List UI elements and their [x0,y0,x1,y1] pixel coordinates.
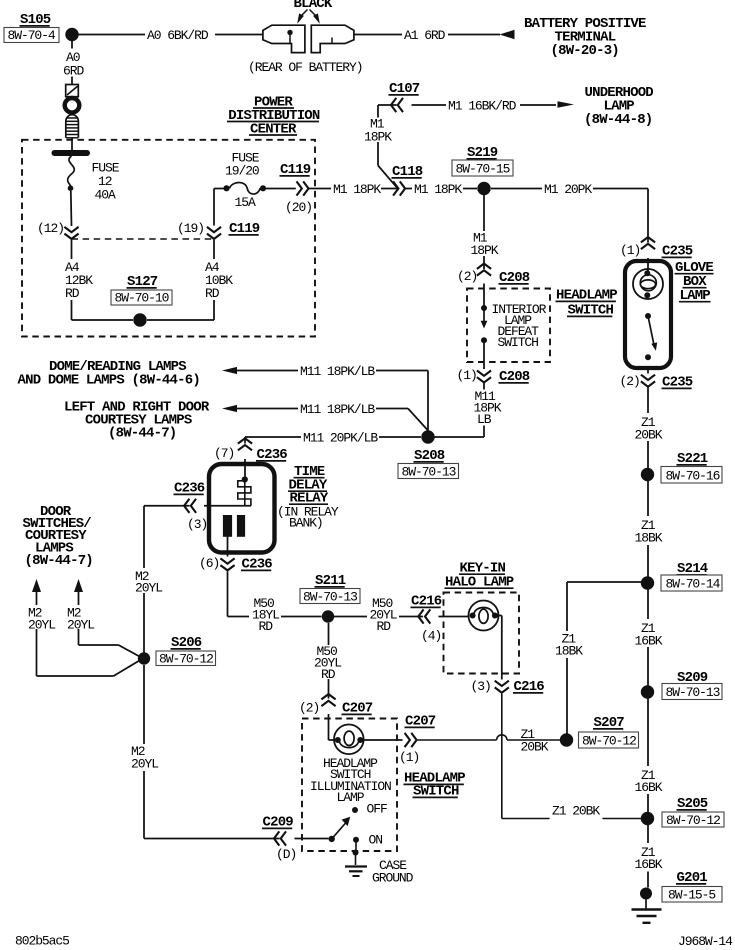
connector C208 pin 1 chevron [477,371,491,383]
splice S207 [560,733,573,746]
label M2 20YL (right) [67,606,94,633]
wire M1 18PK to S219 [406,188,477,190]
splice label S208 [414,448,445,464]
wire A0 6BK/RD to battery connector [79,34,264,36]
arrow to dome/reading lamps [222,367,237,374]
wire M2 to C209 [144,838,280,840]
wire illumination lamp to C207 pin1 [364,739,403,741]
svg-text:A0 6BK/RD: A0 6BK/RD [147,28,209,43]
connector label C208 (1) [499,369,530,385]
reference box 8W-70-16 [661,467,722,484]
wire A0 6RD down from S105 [71,41,73,84]
ground splice G201 [640,888,652,900]
label J968W-14 [678,934,733,949]
svg-text:20YL: 20YL [28,618,55,633]
svg-text:802b5ac5: 802b5ac5 [15,934,69,949]
label A0 [66,50,80,65]
wire into defeat switch [483,284,485,306]
ground label G201 [676,870,707,886]
wire M1 20PK down to C235 [647,189,649,243]
label FUSE 12 40A [92,161,120,203]
svg-text:J968W-14: J968W-14 [678,934,733,949]
splice S221 [641,468,654,481]
label Z1 16BK (S209-S205) [635,768,663,795]
label M11 18PK LB [474,389,502,427]
label M11 18PK/LB (dome) [300,364,375,379]
wire M1 16BK/RD [412,104,557,106]
svg-text:(12): (12) [37,221,64,236]
splice label S205 [677,796,708,812]
svg-text:M1 18PK: M1 18PK [414,182,462,197]
key-in halo lamp bulb [469,601,499,631]
splice S105 [65,28,78,41]
connector label C207 (2) [342,701,373,717]
svg-text:8W-70-16: 8W-70-16 [666,469,720,484]
svg-text:M11 20PK/LB: M11 20PK/LB [303,430,378,445]
wire defeat switch to C208 pin1 [483,343,485,369]
wire Z1 16BK S214-S209 [647,590,649,686]
label (IN RELAY BANK) [277,505,339,531]
svg-text:RD: RD [321,667,336,682]
wire A1 6RD [354,34,500,36]
svg-text:A1 6RD: A1 6RD [404,28,446,43]
wire M50 20YL RD right [334,616,423,618]
svg-text:M11 18PK/LB: M11 18PK/LB [300,364,375,379]
svg-text:20YL: 20YL [135,581,162,596]
svg-text:(6): (6) [199,556,219,571]
glove box lamp housing [625,261,671,368]
connector C119 pin 20 chevron [297,181,309,195]
label HEADLAMP SWITCH (bottom) [404,771,466,787]
label Z1 20BK (to S205) [552,804,600,819]
glove box lamp switch [645,313,657,360]
label (2) C208 [457,269,477,284]
wire into PDC [71,138,73,150]
splice S209 [641,685,654,698]
svg-text:(4): (4) [421,629,441,644]
svg-text:ON: ON [369,833,383,848]
connector label C209 [262,815,293,831]
label (20) [285,200,312,215]
wire A4 10BK RD [147,240,214,320]
svg-text:8W-70-12: 8W-70-12 [666,813,720,828]
svg-text:AND DOME LAMPS (8W-44-6): AND DOME LAMPS (8W-44-6) [18,373,200,389]
arrow to courtesy lamps [222,405,237,412]
svg-text:(2): (2) [620,374,640,389]
relay pin7 internal wire [244,459,246,477]
svg-text:40A: 40A [95,188,116,203]
connector C118 chevron [393,181,405,195]
wire fuse12 to C119 pin 12 [70,191,73,226]
label 6RD [63,64,84,79]
fuse 19/20 element [223,183,266,195]
connector label C118 [392,164,423,180]
label FUSE 19/20 [225,151,260,179]
interior lamp defeat switch [481,305,488,343]
connector C236 pin 6 chevron [220,558,234,570]
connector label C216 (3) [513,679,544,695]
splice label S127 [127,274,158,290]
label M2 20YL (upper) [135,569,162,596]
label (12) [37,221,64,236]
svg-text:18PK: 18PK [471,243,499,258]
bus bar [52,150,91,156]
label M2 20YL (left) [28,606,55,633]
label (3) C216 keyin [471,679,491,694]
wire M11 20PK/LB [245,436,421,438]
label (7) C236 [214,446,234,461]
svg-text:(3): (3) [471,679,491,694]
svg-text:15A: 15A [235,195,256,210]
wire M1 18PK below S219 [483,195,485,269]
reference box 8W-70-10 [111,290,172,306]
reference box 8W-70-12 (S205) [662,812,724,828]
label Z1 16BK (S205-G201) [635,845,663,872]
svg-text:8W-15-5: 8W-15-5 [668,888,715,903]
label A4 10BK RD [205,260,233,301]
connector C216 pin 3 chevron [495,681,509,693]
wire M1 18PK from PDC [309,188,398,190]
svg-text:M1 16BK/RD: M1 16BK/RD [448,99,517,114]
svg-text:16BK: 16BK [635,857,663,872]
reference box 8W-70-13 (S208) [398,464,459,480]
svg-text:20YL: 20YL [131,757,158,772]
wire M11 18PK/LB (dome) [237,371,428,432]
label M2 20YL (lower) [131,744,158,772]
splice label S206 [171,635,202,651]
connector label C207 (1) [405,714,436,730]
wire S214 to S207 [567,582,642,735]
connector label C216 (4) [411,594,442,610]
svg-text:SWITCH: SWITCH [498,335,539,350]
fuse 12 element (squiggle) [68,156,75,191]
label A0 6BK/RD [147,28,209,43]
svg-text:(20): (20) [285,200,312,215]
label DOOR SWITCHES/COURTESY LAMPS (8W-44-7) [23,504,93,569]
splice label S221 [677,451,708,467]
splice S206 [138,652,150,664]
time delay relay housing [209,464,275,553]
svg-text:(2): (2) [457,269,477,284]
headlamp switch illumination lamp bulb [334,725,364,755]
connector label C107 [389,81,420,97]
label BLACK (cut off at top) [294,0,333,12]
svg-text:19/20: 19/20 [225,164,259,179]
svg-text:18BK: 18BK [555,644,583,659]
wire glove box lamp to C235 pin2 [647,368,649,374]
splice S214 [641,576,654,589]
svg-text:LB: LB [477,412,492,427]
wire M1 18PK up to C107 [378,105,398,188]
wire A4 12BK RD [72,240,134,320]
connector C119 pin 19 chevron [207,227,221,239]
relay pin6 internal [227,537,229,557]
wire relay pin 3 [144,505,251,507]
svg-text:Z1 20BK: Z1 20BK [552,804,600,819]
svg-text:(19): (19) [177,221,204,236]
label (2) C207 [299,701,319,716]
case ground connection [353,843,359,866]
svg-text:(REAR OF BATTERY): (REAR OF BATTERY) [248,60,362,75]
label HEADLAMP SWITCH (bottom) line2 [413,784,460,800]
label (3) C236 [187,517,207,532]
wire M1 20PK [491,188,648,190]
fusible link symbol [65,85,80,138]
splice S219 [477,182,490,195]
svg-text:BANK): BANK) [289,516,323,531]
splice label S105 [20,12,51,28]
reference box 8W-70-12 (S207) [579,732,639,749]
wire M50 20YL RD down [328,623,330,699]
splice label S209 [677,670,708,686]
svg-text:8W-70-15: 8W-70-15 [456,162,510,177]
reference box 8W-70-4 [4,28,59,44]
svg-text:(7): (7) [214,446,234,461]
label HEADLAMP SWITCH line2 [567,303,614,319]
connector C119 pin 12 chevron [64,227,78,239]
svg-text:(2): (2) [299,701,319,716]
connector label C236 (6) [241,557,272,573]
connector C236 pin 3 chevron [184,499,196,513]
svg-text:8W-70-13: 8W-70-13 [303,590,357,605]
label Z1 20BK (glove box) [635,415,663,443]
svg-text:6RD: 6RD [63,64,84,79]
leader line BLACK right [310,10,316,16]
connector C236 pin 7 chevron [238,438,252,450]
label M50 20YL RD (down) [314,644,341,682]
reference box 8W-70-13 (S209) [662,684,722,701]
connector C207 pin 2 chevron [321,694,335,706]
connector label C235 (2) [662,375,693,391]
wire M2 20YL (right door) [79,590,140,657]
label DOME/READING LAMPS AND DOME LAMPS (8W-44-6) [18,359,200,389]
wire M11 20PK/LB to relay pin7 [244,437,246,444]
connector label C119 (20) [280,162,311,178]
label M50 20YL RD (right) [370,596,397,634]
wire halo lamp to C216 pin3 [497,616,502,680]
dashed link C119 (12)-(19) [72,238,215,240]
svg-text:8W-70-14: 8W-70-14 [666,577,721,592]
connector C107 chevron [391,98,403,112]
connector C235 pin 2 chevron [641,375,655,387]
label Z1 20BK (C207-S207) [521,727,549,755]
label M1 18PK (vertical) [364,117,392,145]
label (19) [177,221,204,236]
splice S127 [133,313,146,326]
label CASE GROUND [372,858,414,886]
arrow to battery positive terminal [500,30,515,39]
label KEY-IN HALO LAMP [445,561,514,591]
label (1) C207 [399,750,419,765]
svg-text:8W-70-13: 8W-70-13 [666,685,720,700]
label 15A [235,195,256,210]
label (2) C235 [620,374,640,389]
case ground symbol [345,867,367,877]
svg-text:RD: RD [205,286,220,301]
svg-text:M1 18PK: M1 18PK [333,182,381,197]
label BATTERY POSITIVE TERMINAL (8W-20-3) [524,16,646,59]
svg-text:BLACK: BLACK [294,0,333,12]
svg-text:(1): (1) [620,243,640,258]
relay contacts [223,515,245,537]
svg-text:GROUND: GROUND [372,871,414,886]
svg-text:LAMP: LAMP [337,790,365,805]
svg-text:(D): (D) [276,847,296,862]
label POWER DISTRIBUTION CENTER [227,95,320,138]
connector (rear of battery) right half [311,25,354,52]
reference box 8W-70-12 (S206) [156,651,216,667]
wire into illumination lamp [329,714,336,740]
svg-text:20BK: 20BK [521,740,549,755]
label (D) C209 [276,847,296,862]
glove box lamp bulb [633,269,663,299]
svg-text:OFF: OFF [367,802,387,817]
svg-text:8W-70-10: 8W-70-10 [115,291,169,306]
arrow to door switch left [32,579,41,592]
svg-text:RD: RD [65,286,80,301]
leader line BLACK left [302,10,308,16]
label OFF [367,802,387,817]
svg-text:8W-70-12: 8W-70-12 [159,652,213,667]
wire M2 20YL vertical [143,506,145,839]
label HEADLAMP SWITCH ILLUMINATION LAMP [310,756,391,805]
wire Z1 18BK [647,481,649,577]
connector C235 pin 1 chevron [641,237,655,249]
label INTERIOR LAMP DEFEAT SWITCH [492,302,547,350]
connector C209 chevron [274,831,286,845]
connector C216 pin 4 chevron [418,609,430,623]
svg-text:8W-70-12: 8W-70-12 [582,734,636,749]
svg-text:18PK: 18PK [364,130,392,145]
svg-text:M1 20PK: M1 20PK [544,182,592,197]
label A1 6RD [404,28,446,43]
connector C208 pin 2 chevron [477,264,491,276]
connector label C119 (19) [229,221,260,237]
label (1) C235 [620,243,640,258]
headlamp switch dashed box [302,719,397,852]
key-in halo lamp dashed box [444,593,520,674]
svg-text:18BK: 18BK [635,531,663,546]
svg-text:(3): (3) [187,517,207,532]
svg-text:20BK: 20BK [635,428,663,443]
splice label S211 [315,573,346,589]
label M1 18PK (right) [414,182,462,197]
reference box 8W-70-13 (S211) [300,589,360,605]
label M1 20PK [544,182,592,197]
splice label S214 [677,561,708,577]
wire M11 18PK/LB (courtesy) [237,409,428,431]
ground symbol G201 [632,900,662,923]
connector label C235 (1) [662,244,693,260]
splice label S207 [593,715,624,731]
label (6) C236 [199,556,219,571]
wire fuse to C119 pin 20 [266,188,296,190]
arrow from BLACK to left connector half [297,13,304,23]
wire S208 to C208 [435,382,485,438]
svg-text:RD: RD [377,619,392,634]
svg-text:16BK: 16BK [635,780,663,795]
connector label C236 (3) [174,481,205,497]
reference box 8W-15-5 [662,887,722,903]
connector label C236 (7) [256,447,287,463]
label TIME DELAY RELAY [288,464,329,507]
svg-text:8W-70-13: 8W-70-13 [402,465,456,480]
interior lamp defeat switch dashed box [467,289,550,363]
wire C207 to S207 with hop [417,735,560,740]
reference box 8W-70-15 [452,160,513,177]
headlamp switch contacts [329,807,360,843]
arrow to door switch right [74,579,83,592]
wire C209 to switch common [295,838,329,840]
power distribution center dashed box [22,140,315,337]
svg-text:(8W-20-3): (8W-20-3) [551,43,619,59]
label M1 18PK (below S219) [471,231,499,259]
label GLOVE BOX LAMP [675,260,714,304]
svg-text:8W-70-4: 8W-70-4 [8,28,56,43]
svg-text:16BK: 16BK [635,634,663,649]
label UNDERHOOD LAMP (8W-44-8) [584,85,653,128]
wire Z1 with hop over [502,694,642,819]
svg-text:(1): (1) [399,750,419,765]
wire C216 to halo lamp [439,616,469,618]
wire Z1 20BK below glove box [647,388,649,469]
connector label C208 (2) [499,270,530,286]
label Z1 18BK (right column) [635,518,663,546]
label M50 18YL RD [252,596,279,634]
svg-text:M11 18PK/LB: M11 18PK/LB [300,402,375,417]
label HEADLAMP SWITCH (glove box area) [556,288,618,304]
label M11 18PK/LB (courtesy) [300,402,375,417]
label Z1 18BK (S214 branch) [555,632,583,659]
svg-text:(8W-44-7): (8W-44-7) [25,553,93,569]
wire into glove box lamp [647,258,649,272]
label A4 12BK RD [65,260,93,301]
label 802b5ac5 [15,934,69,949]
label ON [369,833,383,848]
splice label S219 [467,145,498,161]
arrow to underhood lamp [558,101,575,108]
label M1 16BK/RD [448,99,517,114]
splice S208 [421,430,434,443]
wire M50 18YL RD [228,572,322,617]
label Z1 16BK (S214-S209) [635,621,663,649]
svg-text:(8W-44-7): (8W-44-7) [108,426,176,442]
label (1) C208 [457,368,477,383]
wire M2 20YL (left door) [37,590,140,676]
svg-text:20YL: 20YL [67,618,94,633]
arrow from BLACK to right connector half [313,13,320,23]
wire to fuse 19/20 [214,189,224,226]
label M1 18PK (left) [333,182,381,197]
label M11 20PK/LB [303,430,378,445]
wire Z1 16BK S205-G201 [647,825,649,888]
relay coil [238,476,251,505]
connector C207 pin 1 chevron [405,733,417,747]
splice S205 [641,812,654,825]
connector (rear of battery) left half [263,25,305,52]
label (4) C216 [421,629,441,644]
label LEFT AND RIGHT DOOR COURTESY LAMPS (8W-44-7) [64,400,210,442]
wire Z1 16BK S209-S205 [647,699,649,813]
svg-text:(1): (1) [457,368,477,383]
svg-text:(8W-44-8): (8W-44-8) [584,112,652,128]
svg-text:RD: RD [259,619,274,634]
reference box 8W-70-14 [661,575,722,592]
label (REAR OF BATTERY) [248,60,362,75]
splice S211 [322,610,334,622]
